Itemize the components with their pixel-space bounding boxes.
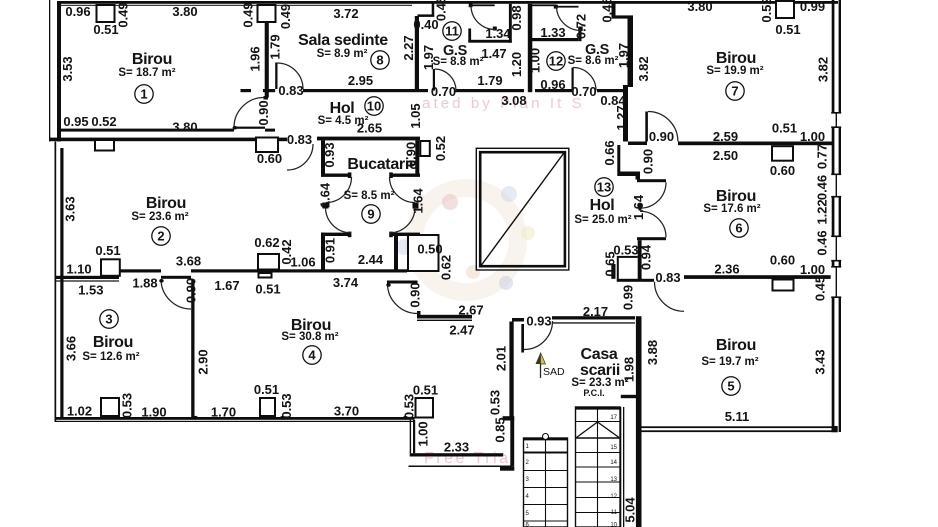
svg-text:2.44: 2.44 [358,252,384,267]
door arc vestibule bottom right [390,207,416,233]
svg-text:3.80: 3.80 [172,4,197,19]
svg-text:12: 12 [549,54,563,69]
door leaf Sala [275,63,277,90]
svg-text:1.34: 1.34 [485,26,511,41]
svg-text:S= 12.6 m²: S= 12.6 m² [82,351,139,363]
svg-text:3.53: 3.53 [60,56,75,81]
window pillar bottom wall Birou3 [101,398,119,416]
wire left outer thin line upper [49,0,50,142]
door arc double top Hol13-Birou6 [640,182,666,208]
svg-text:0.45: 0.45 [434,0,449,21]
wall kitchen bottom stub left [321,174,351,177]
svg-text:0.65: 0.65 [603,251,618,276]
svg-text:3.88: 3.88 [645,340,660,365]
svg-text:3.82: 3.82 [816,57,831,82]
svg-text:0.96: 0.96 [65,4,90,19]
wall Casa scarii left [509,322,513,417]
svg-text:0.72: 0.72 [574,14,589,39]
wall GS bottom right segment [597,89,628,92]
svg-text:0.49: 0.49 [116,2,131,27]
svg-text:0.53: 0.53 [120,393,135,418]
svg-text:0.51: 0.51 [775,22,800,37]
svg-text:3.63: 3.63 [63,196,78,221]
svg-text:0.90: 0.90 [184,278,199,303]
window pillar top wall Sala [258,5,276,22]
svg-text:3.66: 3.66 [64,336,79,361]
door arc Birou3 [161,279,191,309]
svg-text:0.96: 0.96 [540,77,565,92]
step wall right of elevator h1 [617,172,636,177]
svg-text:S= 30.8 m²: S= 30.8 m² [281,331,338,343]
stair right wall line2 [623,407,624,527]
hinge dot GS12 cabin [554,5,558,9]
svg-text:0.42: 0.42 [279,239,294,264]
elevator shaft [476,148,569,270]
wall GS bottom left segment [456,89,525,92]
SAD fire hydrant arrow [536,353,566,379]
svg-text:0.93: 0.93 [322,142,337,167]
stair top connector wall [621,395,637,398]
node circle 9 [362,205,380,223]
node circle 2 [152,227,170,245]
svg-text:2.47: 2.47 [449,323,474,338]
svg-text:6: 6 [735,221,742,236]
hinge dot vestibule right [413,203,419,209]
hinge dot vestibule left [323,203,329,209]
svg-text:0.60: 0.60 [257,151,282,166]
door leaf Birou4 [387,281,418,284]
landing left wall thick [413,420,415,453]
svg-text:2.90: 2.90 [196,349,211,374]
door hinge tick Birou1 [264,96,269,100]
double door top wall [637,179,666,182]
svg-text:S= 23.6 m²: S= 23.6 m² [131,211,188,223]
svg-text:2: 2 [157,229,164,244]
wire left exterior wall lower outer [55,142,57,422]
wall GS12 cabin bottom [528,38,578,41]
svg-text:Casa: Casa [580,346,617,363]
svg-text:0.91: 0.91 [323,238,338,263]
door arc Birou4 [388,284,418,314]
svg-text:Birou: Birou [716,337,756,354]
wire top wall inner thin line [61,5,412,6]
svg-text:0.85: 0.85 [493,417,508,442]
wire left exterior wall upper [57,1,61,142]
door arc Birou7 [648,112,678,142]
svg-text:1.98: 1.98 [622,357,637,382]
wall GS12 cabin right [578,27,581,41]
step wall right of elevator v1 [617,145,620,172]
double door bottom wall [637,237,666,240]
svg-text:0.45: 0.45 [600,0,615,23]
door leaf GS12 [572,68,574,91]
svg-text:S= 19.9 m²: S= 19.9 m² [706,65,763,77]
svg-text:0.90: 0.90 [256,100,271,125]
landing bottom thin line [409,466,512,468]
door arc GS11 [435,69,457,91]
svg-text:1.05: 1.05 [408,103,423,128]
stairs right flight [576,407,621,527]
svg-text:3.70: 3.70 [334,404,359,419]
node circle 5 [722,377,740,395]
svg-text:S= 8.9 m²: S= 8.9 m² [317,48,368,60]
svg-text:8: 8 [376,53,383,68]
pillar Birou4 top right [408,235,439,271]
svg-text:1.88: 1.88 [132,276,157,291]
wall kitchen left [321,140,325,175]
niche vertical top right GS12 [612,1,616,16]
node circle 1 [135,85,153,103]
svg-text:3.43: 3.43 [813,349,828,374]
wall GS11 cabin bottom [468,40,511,43]
svg-text:3.80: 3.80 [687,0,712,14]
svg-text:0.90: 0.90 [408,282,423,307]
door arc Birou5 [655,282,685,312]
wall vestibule left lower [321,233,325,271]
window pillar bottom wall Birou4 left [260,398,275,416]
svg-text:0.52: 0.52 [759,0,774,23]
wall Casa scarii bottom left corner [500,467,514,471]
landing left wall thin [410,420,411,453]
svg-text:2.36: 2.36 [714,262,739,277]
svg-text:0.46: 0.46 [815,175,830,200]
window right wall Birou6 lower [831,236,842,262]
svg-text:1.02: 1.02 [67,404,92,419]
end cap vestibule stub left [348,232,352,238]
svg-text:P.C.I.: P.C.I. [583,388,604,398]
wall GS right / Birou7 left [628,17,634,87]
svg-text:0.45: 0.45 [813,276,828,301]
svg-text:0.98: 0.98 [509,5,524,30]
svg-text:0.93: 0.93 [526,314,551,329]
node circle 7 [726,82,744,100]
svg-text:0.52: 0.52 [91,114,116,129]
wall Birou2 bottom left part [119,269,161,272]
wall jamb above Birou1 door [265,92,269,98]
wall Birou6 top [678,142,832,146]
svg-text:5.04: 5.04 [623,497,638,523]
wall Sala bottom [303,89,415,92]
svg-text:1.00: 1.00 [800,262,825,277]
svg-text:1.06: 1.06 [290,255,315,270]
stair right wall line1 [620,407,621,527]
svg-text:11: 11 [611,510,618,516]
wall Birou2 top stub [279,138,287,142]
svg-text:4: 4 [308,348,316,363]
svg-text:2.01: 2.01 [494,346,509,371]
door arc GS11 cabin [471,6,495,30]
step wall lower v4 [617,258,619,281]
door leaf Birou1 [234,127,265,129]
wall corridor top thin [417,320,472,321]
window pillar top wall Birou7 [776,1,794,18]
wall Casa scarii right outer [636,316,642,527]
end cap vestibule stub right [389,232,393,238]
svg-text:0.70: 0.70 [431,84,456,99]
svg-text:14: 14 [610,460,617,466]
svg-text:2.27: 2.27 [401,35,416,60]
svg-text:1.97: 1.97 [616,43,631,68]
svg-text:5: 5 [727,379,734,394]
wall Birou2 bottom right part [191,269,407,272]
wall vestibule bottom stub right [390,233,421,236]
jamb Birou4 door [417,311,421,315]
svg-text:1.64: 1.64 [411,188,426,214]
svg-text:0.53: 0.53 [488,390,503,415]
door leaf Birou3 [161,276,191,279]
watermark logo palette [396,186,535,292]
wall GS11 cabin right [509,4,512,43]
right wall windows [831,112,842,298]
svg-text:1.47: 1.47 [481,46,506,61]
node circle 12 [547,52,565,70]
door leaf GS12 cabin [556,6,579,8]
step wall right of elevator v2 [636,172,641,180]
svg-text:0.90: 0.90 [649,129,674,144]
bump kitchen right [420,141,430,156]
svg-text:Hol: Hol [590,197,615,214]
svg-text:0.70: 0.70 [571,84,596,99]
node circle 4 [303,346,321,364]
svg-text:0.66: 0.66 [602,140,617,165]
wall Hol13 stub left of corridor [611,264,615,279]
window bumps (white rect black border) [95,1,794,418]
niche vertical GS11 top [432,1,435,17]
svg-text:0.51: 0.51 [255,282,280,297]
wall Birou1 bottom right stub [265,129,275,132]
svg-text:1.64: 1.64 [631,194,646,220]
niche horizontal top right GS12 [612,15,634,18]
svg-text:0.60: 0.60 [770,163,795,178]
Birou5 bottom wall corner box [832,426,838,432]
Birou5 bottom wall line2 [642,430,832,432]
svg-text:1.97: 1.97 [421,45,436,70]
svg-text:Free Trial: Free Trial [424,450,517,467]
window bump Birou2 bottom left [101,259,120,276]
wall Birou7 bottom left piece [628,142,647,146]
node circle 8 [371,51,389,69]
door arc Sala sedinte [277,63,303,89]
wall Sala-GS vertical [415,16,419,92]
door arc GS12 [573,68,596,91]
svg-text:Birou: Birou [146,195,186,212]
hinge dot GS11 cabin [469,3,473,7]
door arc Birou1 [234,97,265,127]
circled room numbers [100,22,748,395]
step wall lower h3 [617,279,641,282]
wall vestibule bottom stub left [321,233,351,236]
svg-text:2.59: 2.59 [713,129,738,144]
door arc GS12 cabin [557,7,582,31]
svg-text:2.50: 2.50 [713,148,738,163]
horizontal dimension labels [63,0,825,455]
wall kitchen bottom stub right [390,174,421,177]
stair direction chevron [577,422,598,438]
svg-text:2.17: 2.17 [583,304,608,319]
svg-text:2.67: 2.67 [458,303,483,318]
svg-text:1.64: 1.64 [318,182,333,208]
svg-text:12: 12 [610,494,617,500]
svg-text:1.70: 1.70 [211,405,236,420]
svg-text:1.00: 1.00 [800,129,825,144]
svg-text:1.90: 1.90 [141,405,166,420]
svg-text:2.65: 2.65 [357,121,382,136]
wall GS11 cabin left jog [468,29,471,43]
landing bottom wall [410,453,504,456]
svg-text:2.33: 2.33 [444,440,469,455]
svg-text:0.90: 0.90 [404,142,419,167]
wall kitchen top [317,137,420,141]
svg-text:0.51: 0.51 [413,383,438,398]
wall GS bottom mid segment [535,89,573,92]
svg-text:S= 8.6 m²: S= 8.6 m² [568,55,619,67]
svg-text:9: 9 [367,207,374,222]
pillar Hol10-Birou2 door [256,138,278,153]
wall GS bottom piece before door [419,89,428,92]
wire top exterior wall [57,1,838,4]
double door meeting tick [639,204,642,211]
bump Birou2 bottom window tab [259,273,272,278]
svg-text:3.80: 3.80 [172,120,197,135]
svg-text:3.82: 3.82 [636,56,651,81]
node circle 6 [730,219,748,237]
wall Birou1 bottom [61,129,234,132]
node circle 13 [595,178,613,196]
svg-text:1.00: 1.00 [416,421,431,446]
svg-text:10: 10 [367,99,381,114]
door leaf Birou7 [645,112,648,142]
window pillar bottom wall Birou4 right [416,398,434,418]
svg-text:0.53: 0.53 [279,393,294,418]
svg-text:1.22: 1.22 [815,199,830,224]
svg-text:1.10: 1.10 [66,262,91,277]
door arc Hol10-Birou2 [287,144,313,170]
svg-text:3.08: 3.08 [501,93,526,108]
svg-text:1.00: 1.00 [528,48,543,73]
svg-text:7: 7 [731,84,738,99]
wall Casa scarii top [552,316,635,319]
wall GS11-GS12 [528,4,533,92]
node circle 11 [443,22,461,40]
wall Birou2 top [50,138,256,142]
svg-text:0.62: 0.62 [254,235,279,250]
svg-text:0.46: 0.46 [815,230,830,255]
door arcs [161,6,684,350]
door arc vestibule bottom left [326,207,352,233]
svg-text:Birou: Birou [93,334,133,351]
wall Casa scarii left notch [503,416,515,420]
door arc Casa scarii [524,321,553,350]
svg-text:Birou: Birou [132,51,172,68]
door leaf GS11 [433,69,435,91]
wall Birou3-Birou4 [191,279,194,417]
stairs left flight [524,434,568,527]
wall Birou5 top [684,275,832,279]
svg-text:3.72: 3.72 [333,6,358,21]
window pillar Birou2 top [95,140,114,151]
svg-text:0.49: 0.49 [278,4,293,29]
svg-text:11: 11 [445,24,459,39]
svg-text:17: 17 [610,415,617,421]
dimension end dots bottom wall [159,126,408,420]
svg-text:1.33: 1.33 [540,25,565,40]
svg-text:0.83: 0.83 [287,132,312,147]
svg-text:S= 25.0 m²: S= 25.0 m² [574,214,631,226]
svg-text:S= 18.7 m²: S= 18.7 m² [118,67,175,79]
svg-text:10: 10 [610,523,617,527]
node circle 10 [365,97,383,115]
svg-text:0.50: 0.50 [417,242,442,257]
svg-text:1: 1 [140,87,147,102]
svg-text:0.60: 0.60 [770,253,795,268]
svg-text:1.27: 1.27 [614,105,629,130]
svg-text:0.83: 0.83 [655,270,680,285]
wall Birou3 top left thin [55,280,120,281]
svg-text:5.11: 5.11 [725,409,750,424]
wire right exterior wall outer [839,0,841,432]
door arc double bottom Hol13-Birou6 [640,211,666,237]
svg-text:13: 13 [610,477,617,483]
wall kitchen right [415,140,419,175]
door end dot GS12 cabin [578,27,582,31]
step wall lower h2 [617,256,638,258]
svg-text:0.51: 0.51 [95,243,120,258]
wire bottom exterior wall [55,417,415,420]
stair step numbers [526,415,618,527]
wall Birou1-Hol vertical [265,23,269,92]
svg-text:0.94: 0.94 [639,244,654,270]
svg-text:0.95: 0.95 [63,114,88,129]
svg-text:1.67: 1.67 [214,278,239,293]
Birou5 bottom wall line1 [642,426,832,428]
step wall lower v3 [638,240,642,281]
svg-text:Sala sedinte: Sala sedinte [298,32,388,49]
wall Casa scarii left lower [510,421,514,467]
wall GS12 cabin top line [528,4,556,6]
svg-text:0.53: 0.53 [402,394,417,419]
svg-text:S= 17.6 m²: S= 17.6 m² [703,203,760,215]
svg-text:1.79: 1.79 [477,73,502,88]
svg-text:S= 8.8 m²: S= 8.8 m² [433,56,484,68]
window pillar top wall Birou1 [97,5,115,22]
bump Birou5 top window [773,280,794,291]
svg-text:0.99: 0.99 [621,285,636,310]
wall Hol10 bottom piece at Birou1 [263,89,275,92]
svg-text:3.74: 3.74 [333,275,359,290]
door leaf GS11 cabin [471,4,495,6]
wire right exterior wall inner [832,0,835,432]
window right wall Birou5 [831,266,842,298]
svg-text:S= 8.5 m²: S= 8.5 m² [344,190,395,202]
wall corridor top [417,315,472,319]
svg-text:0.99: 0.99 [800,0,825,14]
svg-text:S= 19.7 m²: S= 19.7 m² [701,356,758,368]
svg-text:0.51: 0.51 [254,382,279,397]
door arc vestibule top left [326,177,352,203]
wall Birou5 door left piece [641,279,654,282]
wire bottom wall thin line [55,421,415,422]
window right wall Birou6 upper [831,174,842,198]
svg-text:1.53: 1.53 [78,283,103,298]
room labels [82,32,763,398]
bump Birou2 bottom window [258,254,279,270]
svg-text:0.51: 0.51 [772,121,797,136]
svg-text:0.52: 0.52 [433,136,448,161]
bump Birou6 window [772,146,793,161]
svg-text:3.68: 3.68 [176,254,201,269]
svg-text:0.83: 0.83 [278,83,303,98]
door end dot GS11 cabin [493,27,497,31]
